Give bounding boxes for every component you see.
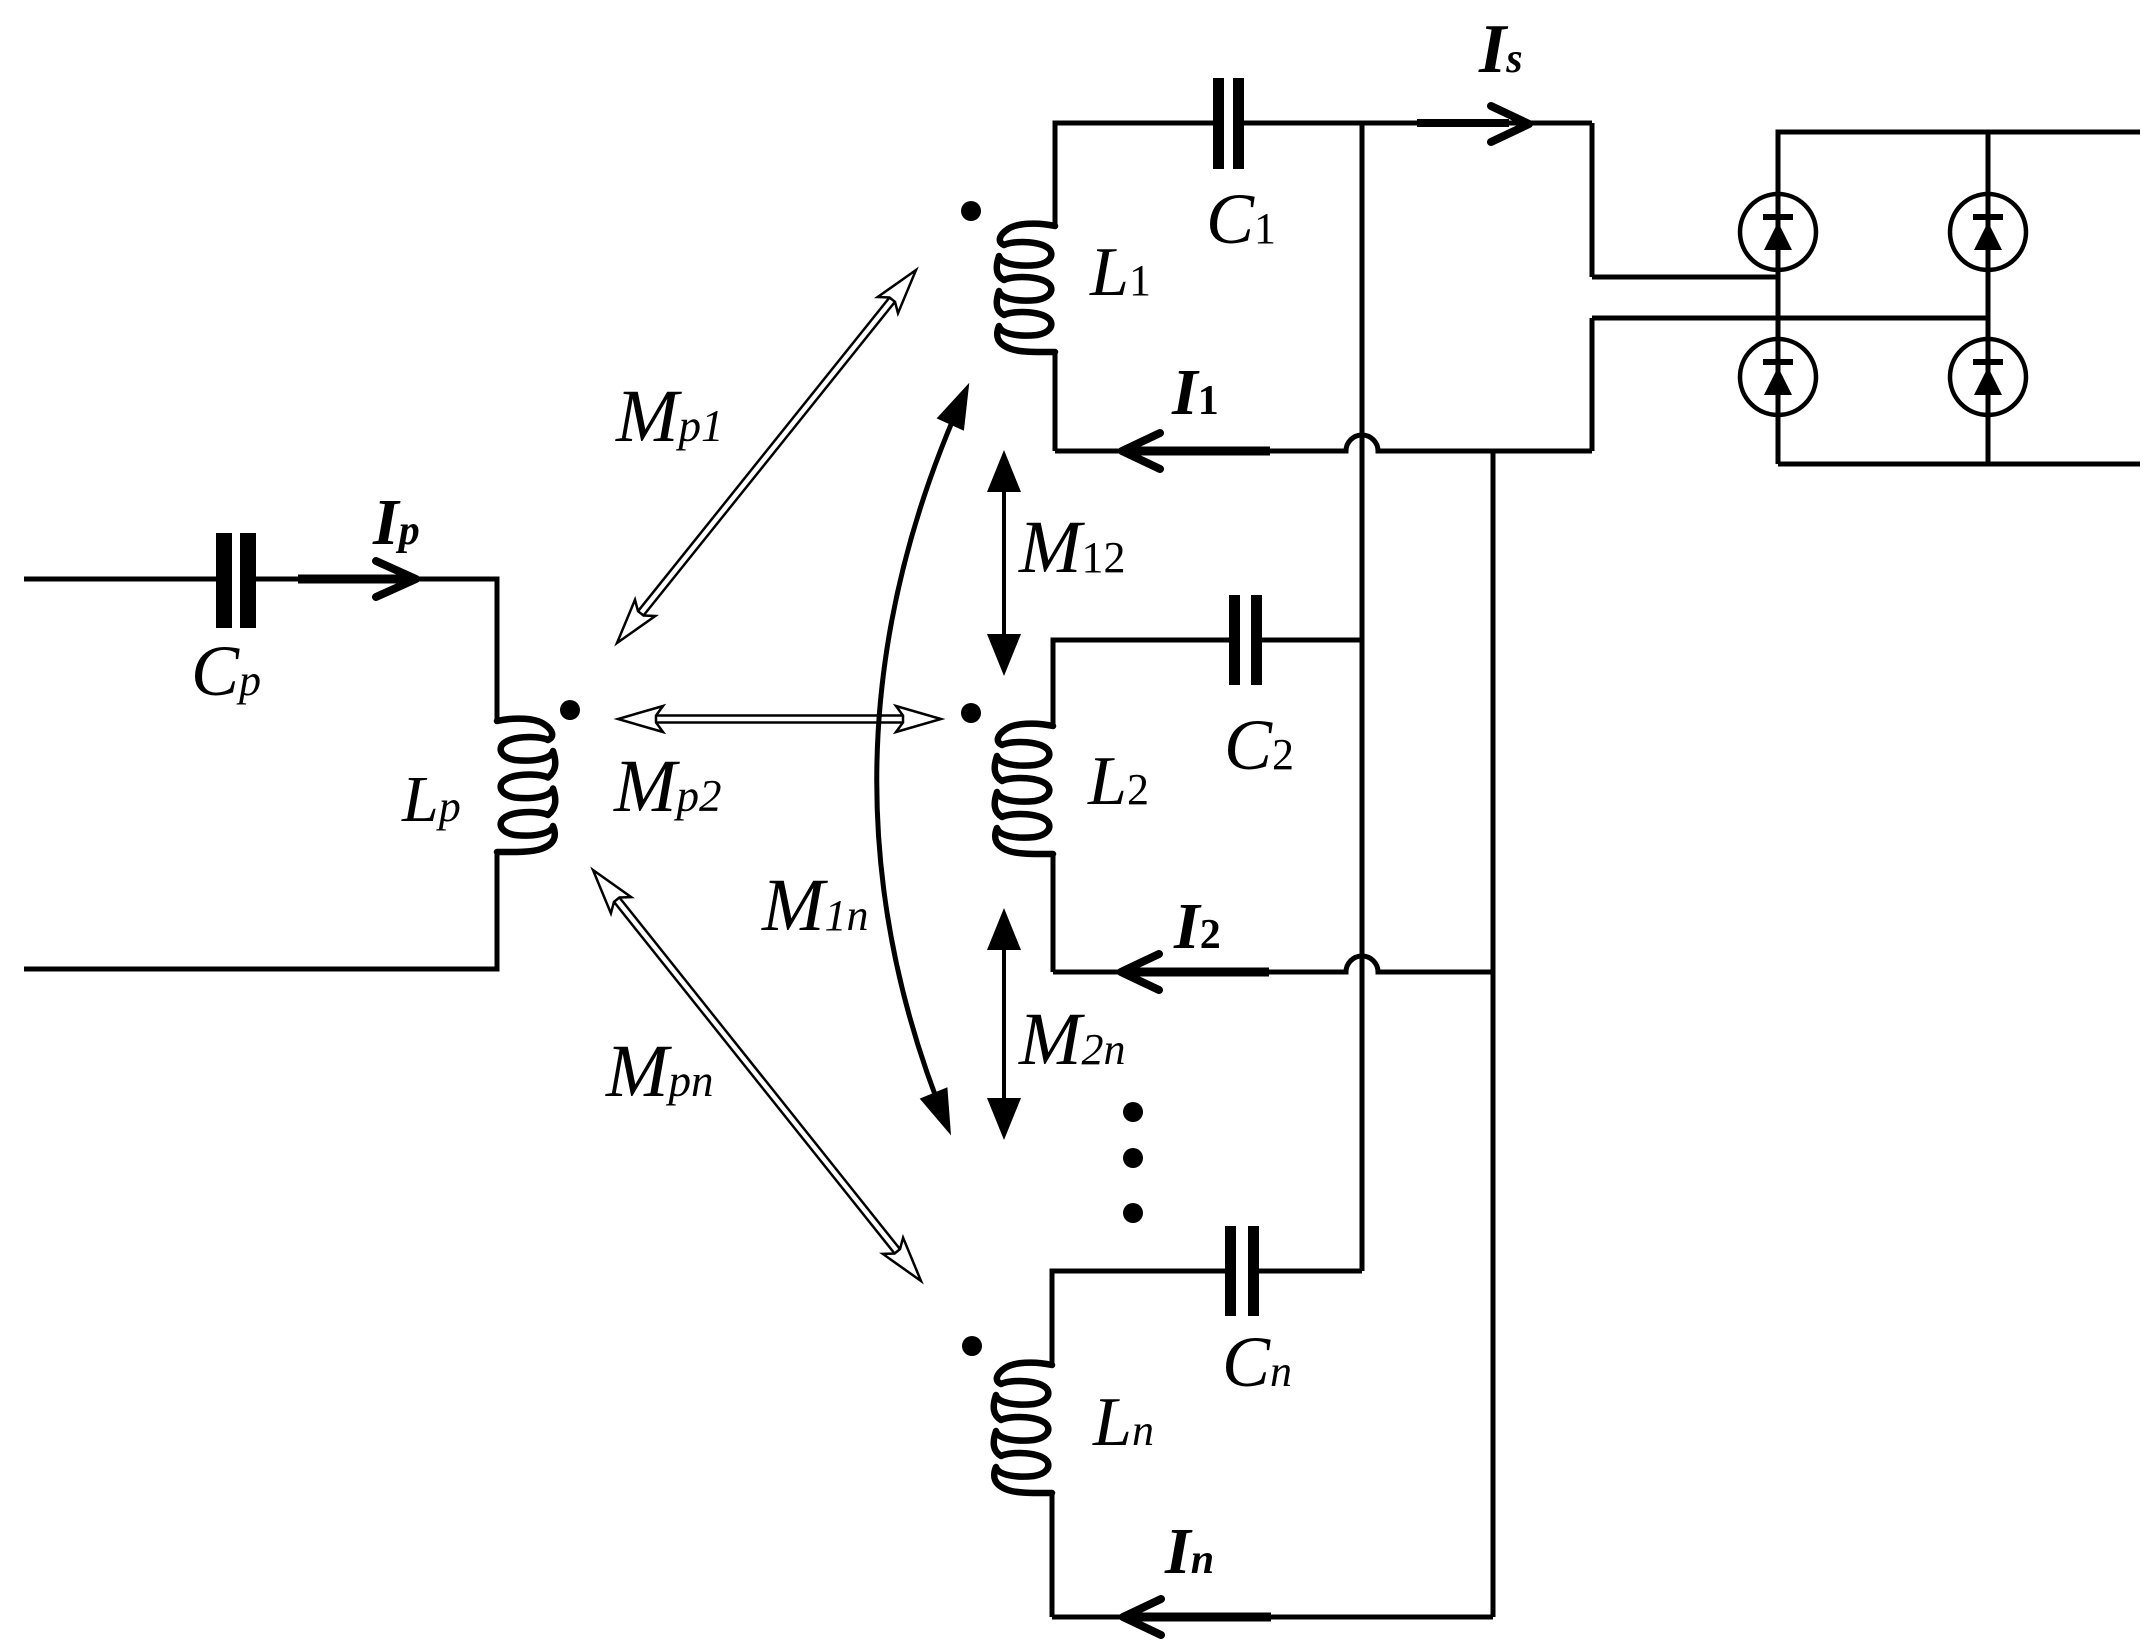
wire cell1 bottom with hop over bus A xyxy=(1055,435,1592,451)
wire cell2 left down xyxy=(1051,853,1056,972)
coupling arrow Mp1 xyxy=(617,600,655,643)
inductor L2 xyxy=(995,724,1053,854)
phase dot L2 xyxy=(961,703,981,723)
wire Lp down and bottom return xyxy=(24,851,497,969)
current arrow I1 xyxy=(1127,447,1270,456)
phase dot Ln xyxy=(962,1336,982,1356)
diode D1 xyxy=(1740,194,1816,270)
coupling arrow M2n xyxy=(1002,944,1006,1104)
wire celln top xyxy=(1052,1271,1362,1364)
coupling arc M1n xyxy=(877,390,966,1128)
wire bridge right leg xyxy=(1986,132,1991,464)
phase dot Lp xyxy=(560,700,580,720)
coupling arrow Mpn xyxy=(593,870,631,913)
wire primary top-left xyxy=(24,577,216,582)
phase dot L1 xyxy=(961,201,981,221)
node dots ellipsis xyxy=(1123,1102,1143,1122)
coupling arrow Mp2 xyxy=(618,706,663,732)
wire celln left down xyxy=(1050,1492,1055,1617)
inductor Ln xyxy=(994,1363,1052,1493)
inductor Lp xyxy=(497,719,555,852)
wire cell2 top xyxy=(1053,640,1362,725)
wire bridge bottom rail xyxy=(1778,462,2140,467)
inductor L1 xyxy=(997,224,1055,352)
current arrow Ip xyxy=(298,575,405,584)
current arrow I2 xyxy=(1126,968,1269,977)
capacitor Cp xyxy=(216,533,232,628)
wire bus B xyxy=(1491,451,1496,1617)
diode D2 xyxy=(1950,194,2026,270)
coupling arrow M12 xyxy=(1002,486,1006,640)
capacitor C2 xyxy=(1229,595,1240,685)
wire right vertical lower xyxy=(1590,318,1595,451)
wire right vertical upper xyxy=(1590,123,1595,277)
wire celln bottom xyxy=(1052,1615,1493,1620)
wire cell1 left down xyxy=(1053,352,1058,451)
diode D4 xyxy=(1950,339,2026,415)
wire Cp to corner and down to Lp xyxy=(256,579,497,721)
capacitor C1 xyxy=(1213,78,1224,169)
wire cell1 top xyxy=(1055,123,1592,226)
current arrow Is xyxy=(1417,119,1509,127)
wire AC stub 1 xyxy=(1592,275,1778,280)
capacitor Cn xyxy=(1225,1226,1236,1316)
wire AC stub 2 xyxy=(1592,316,1988,321)
wire bus A xyxy=(1360,123,1365,1271)
current arrow In xyxy=(1128,1613,1271,1622)
wire bridge top rail xyxy=(1778,132,2140,464)
wire cell2 bottom with hop over bus A xyxy=(1053,956,1493,972)
diode D3 xyxy=(1740,339,1816,415)
